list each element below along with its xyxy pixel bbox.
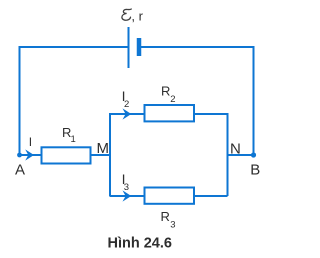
- svg-text:M: M: [97, 140, 110, 157]
- svg-text:3: 3: [170, 220, 175, 231]
- svg-text:2: 2: [170, 94, 175, 105]
- svg-text:Hình 24.6: Hình 24.6: [108, 236, 172, 252]
- svg-text:N: N: [230, 141, 241, 158]
- svg-text:I: I: [29, 135, 32, 149]
- svg-text:2: 2: [124, 99, 129, 110]
- svg-text:3: 3: [124, 182, 129, 193]
- svg-text:, r: , r: [131, 9, 143, 24]
- svg-text:B: B: [250, 162, 260, 179]
- svg-text:A: A: [15, 162, 25, 179]
- svg-text:R: R: [161, 84, 170, 99]
- svg-text:R: R: [161, 209, 170, 224]
- svg-text:1: 1: [71, 134, 76, 145]
